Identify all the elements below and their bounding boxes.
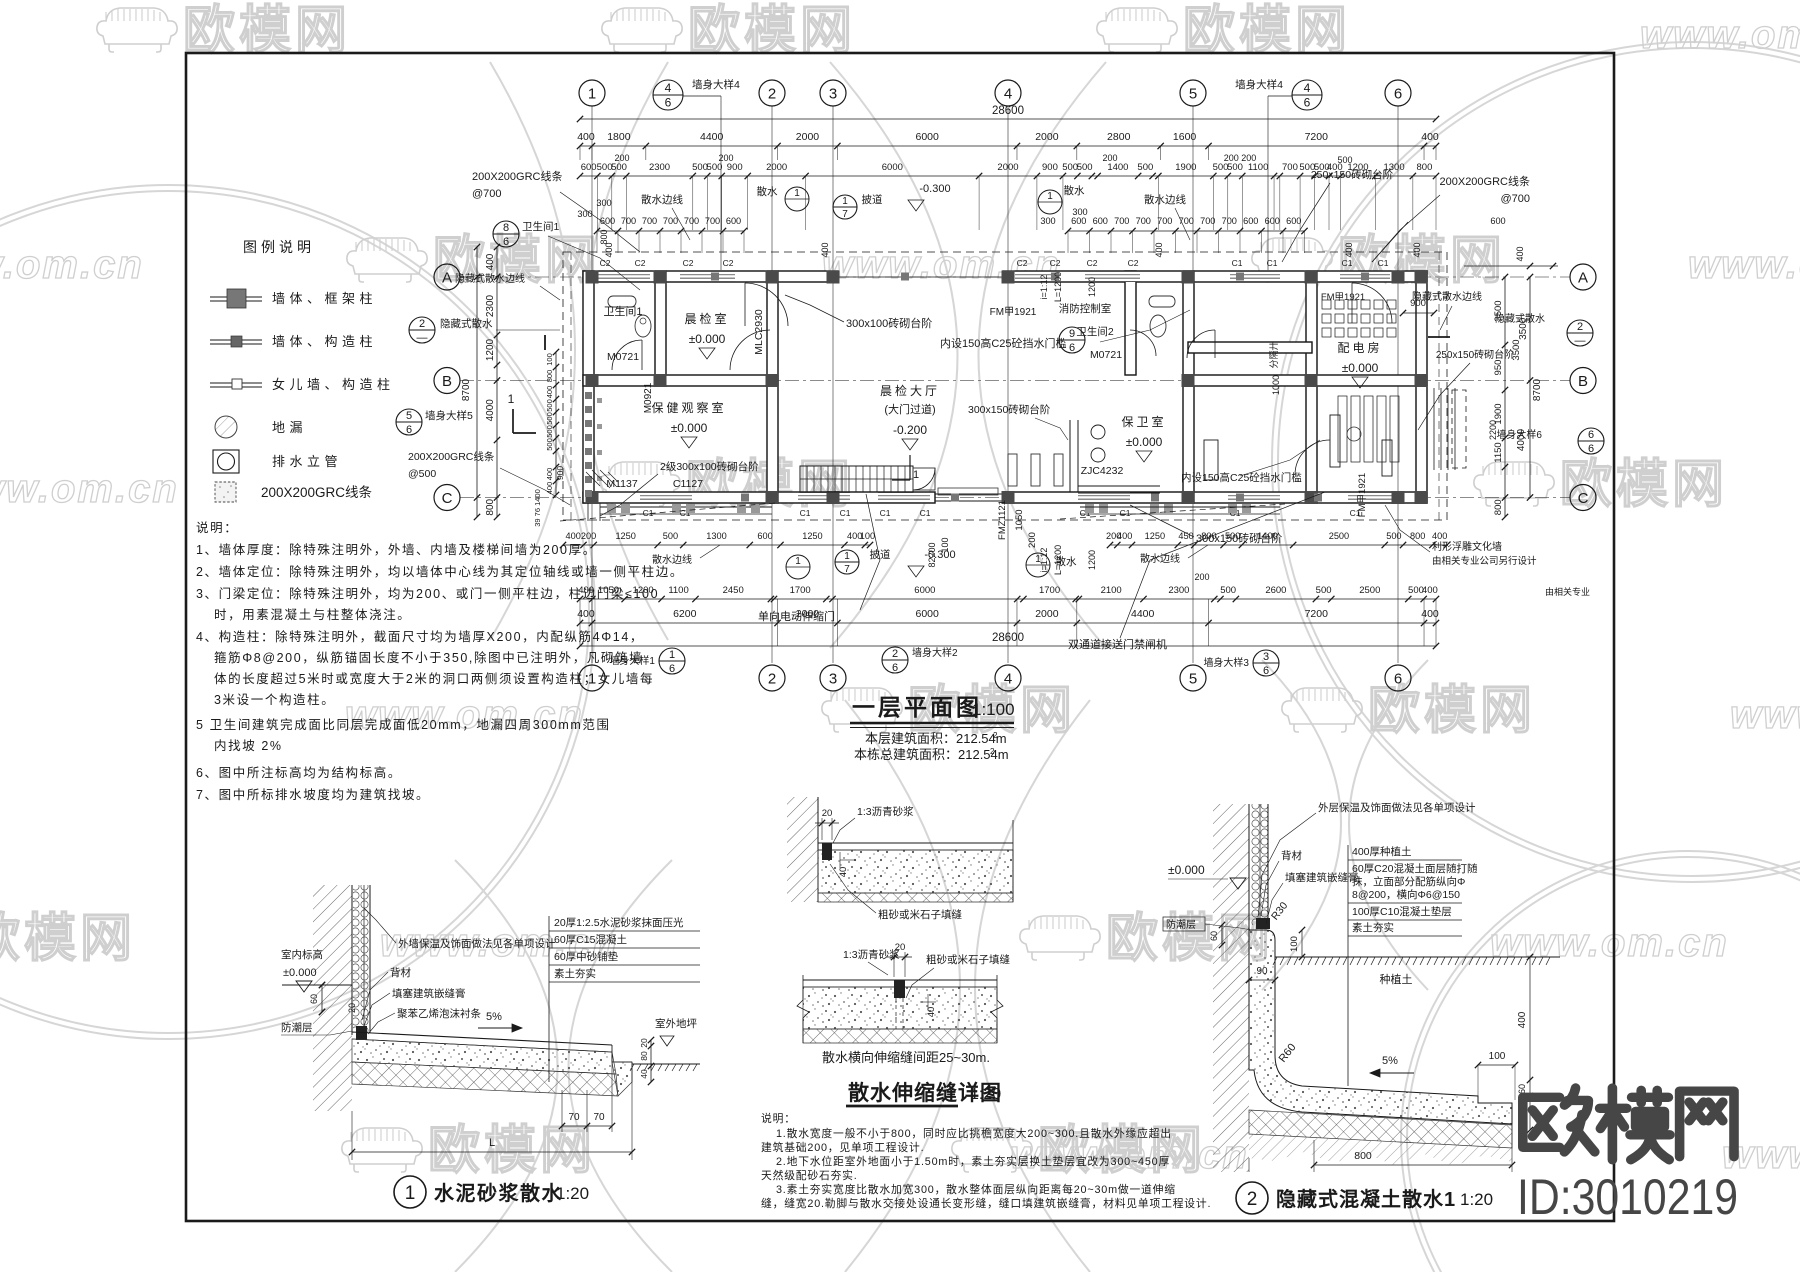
- svg-text:900: 900: [555, 466, 565, 480]
- svg-text:200: 200: [581, 531, 596, 541]
- svg-text:800: 800: [1354, 1150, 1372, 1162]
- windows: [598, 271, 650, 282]
- svg-text:1.散水宽度一般不小于800，同时应比挑檐宽度大200~30: 1.散水宽度一般不小于800，同时应比挑檐宽度大200~300.且散水外缘应超出: [776, 1126, 1172, 1140]
- detail3 concrete L: [1249, 930, 1512, 1124]
- svg-text:1700: 1700: [790, 585, 811, 596]
- svg-text:700: 700: [705, 216, 720, 226]
- svg-text:2100: 2100: [1101, 585, 1122, 596]
- svg-text:400: 400: [1515, 246, 1525, 261]
- svg-text:400: 400: [1422, 585, 1438, 596]
- svg-text:400: 400: [1117, 531, 1132, 541]
- svg-text:2800: 2800: [1107, 131, 1131, 143]
- detail1 earth hatch wall: [313, 885, 352, 1111]
- svg-text:墙身大样1: 墙身大样1: [609, 654, 655, 667]
- svg-text:60厚C20混凝土面层随打随: 60厚C20混凝土面层随打随: [1352, 862, 1478, 875]
- svg-text:www.om.cn: www.om.cn: [1730, 693, 1800, 737]
- svg-text:500: 500: [1227, 162, 1243, 173]
- svg-text:C1: C1: [1342, 258, 1353, 268]
- svg-text:本栋总建筑面积：212.54m: 本栋总建筑面积：212.54m: [854, 747, 1009, 762]
- plan: top grid bubbles: [579, 80, 605, 106]
- svg-text:本层建筑面积：212.54m: 本层建筑面积：212.54m: [865, 731, 1007, 746]
- svg-text:500: 500: [1316, 585, 1332, 596]
- svg-text:2: 2: [768, 670, 776, 687]
- svg-text:欧模网: 欧模网: [428, 1122, 596, 1180]
- svg-text:C2: C2: [723, 258, 734, 268]
- svg-text:隐藏式散水边线: 隐藏式散水边线: [455, 272, 525, 285]
- svg-text:1700: 1700: [1039, 585, 1060, 596]
- detail1 sealant: [356, 1026, 367, 1040]
- svg-text:C: C: [1578, 490, 1589, 507]
- building walls: [583, 271, 838, 282]
- svg-text:1400: 1400: [1107, 162, 1128, 173]
- svg-text:4: 4: [1004, 85, 1012, 102]
- svg-text:600: 600: [600, 216, 615, 226]
- svg-text:A: A: [442, 269, 452, 286]
- svg-text:(大门过道): (大门过道): [884, 402, 935, 416]
- svg-text:@500: @500: [408, 468, 436, 480]
- detail1 title: [394, 1176, 426, 1208]
- svg-text:散水边线: 散水边线: [641, 193, 683, 206]
- svg-text:8700: 8700: [1532, 378, 1543, 401]
- svg-text:±0.000: ±0.000: [1342, 361, 1379, 375]
- svg-text:70: 70: [568, 1112, 580, 1123]
- plan: letter axis lines: [460, 276, 1570, 278]
- svg-text:200: 200: [1102, 153, 1117, 163]
- svg-text:1100: 1100: [668, 585, 688, 596]
- svg-text:散水: 散水: [1064, 184, 1086, 197]
- svg-text:6200: 6200: [673, 608, 697, 620]
- svg-text:C1: C1: [1120, 508, 1131, 518]
- svg-text:20: 20: [639, 1038, 649, 1048]
- svg-text:2: 2: [1247, 1189, 1258, 1210]
- svg-text:5 卫生间建筑完成面比同层完成面低20mm，地漏四周300: 5 卫生间建筑完成面比同层完成面低20mm，地漏四周300mm范围: [196, 717, 611, 732]
- svg-text:C1: C1: [920, 508, 931, 518]
- svg-text:900: 900: [1410, 298, 1426, 309]
- detail1 interior floor line: [282, 984, 352, 986]
- svg-text:500: 500: [545, 399, 554, 412]
- svg-text:800: 800: [485, 498, 496, 515]
- svg-text:www.om.cn: www.om.cn: [1688, 243, 1800, 287]
- svg-text:散水边线: 散水边线: [652, 553, 692, 566]
- svg-text:7、图中所标排水坡度均为建筑找坡。: 7、图中所标排水坡度均为建筑找坡。: [196, 787, 430, 802]
- svg-text:2000: 2000: [796, 608, 820, 620]
- svg-text:4、构造柱：除特殊注明外，截面尺寸均为墙厚X200，内配纵筋: 4、构造柱：除特殊注明外，截面尺寸均为墙厚X200，内配纵筋4Φ14，: [196, 629, 644, 644]
- svg-text:隐藏式混凝土散水1: 隐藏式混凝土散水1: [1276, 1187, 1456, 1211]
- svg-text:说明：: 说明：: [196, 520, 238, 535]
- svg-text:隐藏式散水: 隐藏式散水: [440, 317, 493, 330]
- svg-text:200X200GRC线条: 200X200GRC线条: [1440, 174, 1531, 188]
- svg-text:40: 40: [838, 867, 849, 878]
- svg-text:700: 700: [1282, 162, 1298, 173]
- svg-text:250x150砖砌台阶: 250x150砖砌台阶: [1436, 348, 1514, 361]
- svg-text:C1127: C1127: [673, 478, 703, 490]
- svg-text:2450: 2450: [723, 585, 744, 596]
- svg-text:28600: 28600: [992, 632, 1024, 644]
- svg-text:6、图中所注标高均为结构标高。: 6、图中所注标高均为结构标高。: [196, 765, 402, 780]
- svg-text:1200: 1200: [485, 338, 496, 361]
- svg-text:600: 600: [1243, 216, 1258, 226]
- small cabinet: [1204, 440, 1218, 480]
- svg-text:1050: 1050: [598, 585, 619, 596]
- detail3 earth hatch: [1213, 804, 1249, 1172]
- detail3 ground line: [1275, 956, 1560, 958]
- svg-text:200X200GRC线条: 200X200GRC线条: [472, 169, 563, 183]
- svg-text:6: 6: [1394, 85, 1402, 102]
- svg-text:C1: C1: [1378, 258, 1389, 268]
- detail1 right ground: [632, 1063, 700, 1065]
- detail1 vertical dims right: [650, 1040, 652, 1082]
- svg-text:400: 400: [1154, 242, 1164, 257]
- svg-text:一层平面图: 一层平面图: [852, 694, 982, 720]
- svg-text:防潮层: 防潮层: [1166, 918, 1196, 931]
- svg-text:200: 200: [614, 153, 629, 163]
- svg-text:www.om.cn: www.om.cn: [1490, 921, 1729, 965]
- svg-text:200X200GRC线条: 200X200GRC线条: [261, 484, 373, 500]
- svg-text:400: 400: [545, 468, 554, 481]
- svg-text:1: 1: [669, 649, 675, 661]
- svg-text:700: 700: [1136, 216, 1151, 226]
- svg-text:利形浮雕文化墙: 利形浮雕文化墙: [1432, 540, 1502, 553]
- svg-text:600: 600: [1093, 216, 1108, 226]
- turnstile gate: [800, 466, 913, 492]
- svg-text:1:3沥青砂浆: 1:3沥青砂浆: [843, 948, 900, 961]
- svg-text:2: 2: [993, 731, 998, 740]
- svg-text:2000: 2000: [766, 162, 787, 173]
- svg-text:粗砂或米石子填缝: 粗砂或米石子填缝: [926, 953, 1010, 966]
- svg-text:500: 500: [1220, 585, 1236, 596]
- svg-text:A: A: [1578, 269, 1588, 286]
- svg-text:800: 800: [1201, 531, 1216, 541]
- svg-text:背材: 背材: [1281, 849, 1303, 862]
- GRC corner hatch: [586, 470, 618, 488]
- svg-text:5: 5: [1189, 670, 1197, 687]
- svg-text:2000: 2000: [796, 131, 820, 143]
- svg-text:1: 1: [844, 551, 850, 562]
- svg-text:墙身大样3: 墙身大样3: [1203, 656, 1249, 669]
- svg-text:墙身大样5: 墙身大样5: [425, 409, 473, 422]
- svg-text:±0.000: ±0.000: [283, 967, 317, 979]
- svg-text:4400: 4400: [1131, 608, 1155, 620]
- svg-text:6: 6: [665, 96, 672, 110]
- detail2 top sub: wall hatch: [787, 797, 818, 902]
- svg-text:1250: 1250: [802, 531, 822, 541]
- svg-text:散水: 散水: [1056, 555, 1078, 568]
- svg-text:400: 400: [820, 242, 830, 257]
- svg-text:1200: 1200: [1087, 550, 1097, 570]
- watermark logos: [97, 8, 177, 52]
- svg-text:1: 1: [1047, 191, 1053, 202]
- svg-text:1000: 1000: [1271, 375, 1281, 395]
- svg-text:400: 400: [1344, 242, 1354, 257]
- svg-text:1800: 1800: [607, 131, 631, 143]
- svg-text:聚苯乙烯泡沫衬条: 聚苯乙烯泡沫衬条: [397, 1007, 481, 1020]
- svg-text:ID:3010219: ID:3010219: [1517, 1169, 1738, 1225]
- svg-text:6: 6: [406, 424, 412, 436]
- svg-text:卫生间1: 卫生间1: [522, 220, 559, 233]
- svg-text:600: 600: [1071, 216, 1086, 226]
- svg-text:400: 400: [1517, 1011, 1528, 1028]
- svg-text:60: 60: [1209, 931, 1219, 941]
- right vertical dims: [1504, 277, 1506, 517]
- svg-text:9: 9: [1069, 328, 1075, 340]
- svg-text:700: 700: [684, 216, 699, 226]
- svg-text:6: 6: [892, 662, 898, 674]
- svg-text:3: 3: [829, 85, 837, 102]
- svg-text:5: 5: [406, 410, 412, 422]
- svg-text:±0.000: ±0.000: [689, 332, 726, 346]
- svg-text:ZJC4232: ZJC4232: [1081, 465, 1124, 477]
- svg-text:2500: 2500: [1329, 531, 1349, 541]
- svg-text:种植土: 种植土: [1380, 972, 1413, 986]
- svg-text:欧模网: 欧模网: [0, 910, 136, 968]
- svg-text:60: 60: [1517, 1084, 1527, 1094]
- big site logo: [1523, 1088, 1734, 1160]
- svg-text:1: 1: [913, 469, 919, 481]
- svg-text:600: 600: [726, 216, 741, 226]
- svg-text:由相关专业公司另行设计: 由相关专业公司另行设计: [1432, 555, 1537, 567]
- svg-text:2300: 2300: [1168, 585, 1189, 596]
- louver array 2: [1338, 396, 1347, 462]
- svg-text:内设150高C25砼挡水门槛: 内设150高C25砼挡水门槛: [1181, 471, 1302, 484]
- svg-text:C2: C2: [683, 258, 694, 268]
- svg-text:—: —: [417, 332, 428, 344]
- svg-text:400: 400: [578, 585, 594, 596]
- svg-text:7: 7: [844, 564, 850, 575]
- svg-text:素土夯实: 素土夯实: [554, 967, 596, 980]
- svg-text:披道: 披道: [862, 193, 883, 206]
- svg-text:100: 100: [545, 353, 554, 366]
- svg-text:500: 500: [663, 531, 678, 541]
- svg-text:400: 400: [1421, 131, 1439, 143]
- svg-text:1200: 1200: [633, 585, 654, 596]
- svg-text:B: B: [1578, 373, 1588, 390]
- svg-text:800: 800: [545, 370, 554, 383]
- detail1 right spec列: [548, 916, 550, 1082]
- svg-text:欧模网: 欧模网: [688, 2, 856, 60]
- svg-text:抹，立面部分配筋纵向Φ: 抹，立面部分配筋纵向Φ: [1352, 875, 1465, 888]
- svg-text:C1: C1: [840, 508, 851, 518]
- svg-text:500: 500: [545, 425, 554, 438]
- svg-text:3: 3: [829, 670, 837, 687]
- svg-text:外墙保温及饰面做法见各单项设计: 外墙保温及饰面做法见各单项设计: [398, 937, 556, 950]
- svg-text:100: 100: [860, 531, 875, 541]
- svg-text:200: 200: [1027, 532, 1038, 548]
- svg-text:1250: 1250: [615, 531, 635, 541]
- svg-text:保健观察室: 保健观察室: [651, 400, 726, 415]
- svg-text:L: L: [489, 1137, 495, 1149]
- svg-text:晨检室: 晨检室: [684, 311, 729, 326]
- svg-text:图例说明: 图例说明: [243, 239, 315, 255]
- legend GRC strip: [215, 482, 236, 502]
- svg-text:1150: 1150: [1493, 442, 1504, 462]
- svg-text:—: —: [1575, 335, 1586, 347]
- svg-text:500: 500: [1337, 155, 1352, 165]
- svg-text:300: 300: [596, 198, 611, 208]
- guard room enclosure: [1069, 420, 1071, 492]
- svg-text:C2: C2: [1017, 258, 1028, 268]
- svg-text:3.素土夯实宽度比散水加宽300，散水整体面层纵向距离每20: 3.素土夯实宽度比散水加宽300，散水整体面层纵向距离每20~30m做一道伸缩: [776, 1182, 1176, 1196]
- svg-text:1400: 1400: [1257, 531, 1277, 541]
- svg-text:6: 6: [1588, 429, 1594, 441]
- svg-text:C1: C1: [1232, 258, 1243, 268]
- svg-text:M0921: M0921: [643, 382, 654, 413]
- svg-text:700: 700: [663, 216, 678, 226]
- svg-text:3米设一个构造柱。: 3米设一个构造柱。: [214, 692, 335, 707]
- svg-text:室内标高: 室内标高: [281, 948, 323, 961]
- svg-text:700: 700: [1200, 216, 1215, 226]
- svg-text:墙身大样4: 墙身大样4: [1235, 78, 1283, 91]
- svg-text:6: 6: [669, 663, 675, 675]
- svg-text:2.地下水位距室外地面小于1.50m时，素土夯实层换土垫层宜: 2.地下水位距室外地面小于1.50m时，素土夯实层换土垫层宜改为300~450厚: [776, 1154, 1170, 1168]
- svg-text:60: 60: [309, 994, 319, 1004]
- svg-text:6000: 6000: [916, 608, 940, 620]
- svg-text:2: 2: [768, 85, 776, 102]
- svg-text:1100: 1100: [1248, 162, 1268, 173]
- svg-text:500: 500: [1225, 531, 1240, 541]
- svg-text:消防控制室: 消防控制室: [1059, 302, 1112, 315]
- svg-text:1:3沥青砂浆: 1:3沥青砂浆: [857, 805, 914, 818]
- svg-text:散水边线: 散水边线: [1144, 193, 1186, 206]
- svg-text:300x150砖砌台阶: 300x150砖砌台阶: [968, 403, 1051, 416]
- svg-text:300: 300: [1040, 216, 1055, 226]
- svg-text:90: 90: [1256, 966, 1268, 977]
- svg-text:2: 2: [892, 648, 898, 660]
- svg-text:填塞建筑嵌缝膏: 填塞建筑嵌缝膏: [392, 987, 466, 1000]
- svg-text:800: 800: [1493, 499, 1504, 515]
- svg-text:素土夯实: 素土夯实: [1352, 921, 1394, 934]
- svg-text:1: 1: [508, 392, 515, 406]
- svg-text:说明：: 说明：: [761, 1111, 796, 1125]
- svg-text:卫生间1: 卫生间1: [603, 304, 642, 318]
- svg-text:i=1:12: i=1:12: [1039, 275, 1049, 300]
- svg-text:1050: 1050: [1014, 509, 1025, 530]
- legend wall constructional column: [210, 339, 262, 341]
- exterior steps right porch: [1426, 388, 1428, 470]
- svg-text:400: 400: [545, 482, 554, 495]
- detail1 insulation layer: [353, 885, 370, 1033]
- svg-text:2500: 2500: [1359, 585, 1380, 596]
- plan: 700-series tick clusters: [597, 230, 744, 232]
- svg-text:C1: C1: [1267, 258, 1278, 268]
- svg-text:1250: 1250: [1145, 531, 1165, 541]
- svg-text:www.om.cn: www.om.cn: [1640, 13, 1800, 57]
- svg-text:6000: 6000: [882, 162, 903, 173]
- svg-text:950: 950: [1493, 360, 1504, 376]
- svg-text:200X200GRC线条: 200X200GRC线条: [408, 450, 495, 463]
- plan: bottom dimension rows: [563, 544, 870, 546]
- svg-text:6: 6: [1304, 96, 1311, 110]
- svg-text:700: 700: [1114, 216, 1129, 226]
- svg-text:800: 800: [1417, 162, 1433, 173]
- detail2 top sub: slab: [818, 842, 1013, 844]
- svg-text:欧模网: 欧模网: [183, 2, 351, 60]
- svg-text:700: 700: [1157, 216, 1172, 226]
- svg-text:400: 400: [1432, 531, 1447, 541]
- detail1 L dim: [352, 1151, 632, 1153]
- svg-text:B: B: [442, 373, 452, 390]
- left vertical dims: [476, 247, 478, 517]
- svg-text:8700: 8700: [461, 378, 472, 401]
- svg-text:FM甲1921: FM甲1921: [1321, 292, 1365, 303]
- svg-text:MLC2930: MLC2930: [753, 309, 765, 355]
- svg-text:1:100: 1:100: [972, 700, 1015, 719]
- svg-text:1: 1: [795, 556, 801, 567]
- svg-text:散水边线: 散水边线: [1140, 552, 1180, 565]
- detail3 spec column: [1347, 845, 1349, 1086]
- detail3 title: [1236, 1182, 1268, 1214]
- svg-text:4: 4: [1004, 670, 1012, 687]
- detail3 insulation: [1251, 804, 1268, 925]
- svg-text:3500: 3500: [1518, 317, 1529, 340]
- detail1 slab: [352, 1032, 612, 1045]
- svg-text:缝，缝宽20.勒脚与散水交接处设通长变形缝，缝口填建筑嵌缝膏: 缝，缝宽20.勒脚与散水交接处设通长变形缝，缝口填建筑嵌缝膏，材料见单项工程设计…: [761, 1196, 1211, 1210]
- svg-text:1、墙体厚度：除特殊注明外，外墙、内墙及楼梯间墙为200厚。: 1、墙体厚度：除特殊注明外，外墙、内墙及楼梯间墙为200厚。: [196, 542, 597, 557]
- svg-text:2: 2: [419, 318, 425, 330]
- svg-text:墙身大样4: 墙身大样4: [692, 78, 740, 91]
- svg-text:80: 80: [639, 1051, 649, 1061]
- svg-text:保卫室: 保卫室: [1121, 414, 1166, 429]
- svg-text:400: 400: [1412, 242, 1422, 257]
- svg-text:1: 1: [405, 1183, 416, 1204]
- svg-text:5: 5: [1189, 85, 1197, 102]
- svg-text:1: 1: [1035, 554, 1041, 565]
- svg-text:400: 400: [485, 253, 496, 270]
- svg-text:C2: C2: [600, 258, 611, 268]
- svg-text:FMZ1121: FMZ1121: [997, 500, 1008, 540]
- svg-text:C2: C2: [1128, 258, 1139, 268]
- svg-text:双通道接送门禁闸机: 双通道接送门禁闸机: [1068, 637, 1167, 651]
- svg-text:±0.000: ±0.000: [1168, 863, 1205, 877]
- door arcs: [612, 340, 642, 370]
- svg-text:-0.300: -0.300: [924, 549, 955, 561]
- svg-text:400: 400: [566, 531, 581, 541]
- svg-text:配电房: 配电房: [1337, 340, 1382, 355]
- svg-text:8@200，横向Φ6@150: 8@200，横向Φ6@150: [1352, 888, 1460, 901]
- svg-text:900: 900: [727, 162, 743, 173]
- svg-text:7: 7: [842, 209, 848, 220]
- svg-text:800: 800: [1410, 531, 1425, 541]
- svg-text:6: 6: [1069, 342, 1075, 354]
- legend floor drain: [215, 416, 237, 438]
- detail2 bottom sub: slab: [803, 979, 997, 981]
- svg-text:女儿墙、构造柱: 女儿墙、构造柱: [272, 377, 395, 392]
- svg-text:700: 700: [621, 216, 636, 226]
- svg-text:20: 20: [822, 808, 833, 819]
- svg-text:600: 600: [1265, 216, 1280, 226]
- legend drain pipe: [213, 450, 239, 473]
- svg-text:墙体、框架柱: 墙体、框架柱: [272, 291, 377, 306]
- svg-text:39 76 1400: 39 76 1400: [533, 489, 542, 527]
- svg-text:500: 500: [707, 162, 723, 173]
- svg-text:2300: 2300: [649, 162, 670, 173]
- svg-text:L=1200: L=1200: [1053, 272, 1063, 302]
- svg-text:800: 800: [599, 229, 609, 244]
- svg-text:2、墙体定位：除特殊注明外，均以墙体中心线为其定位轴线或墙一: 2、墙体定位：除特殊注明外，均以墙体中心线为其定位轴线或墙一侧平柱边。: [196, 564, 684, 579]
- svg-text:400厚种植土: 400厚种植土: [1352, 845, 1412, 858]
- svg-text:M0721: M0721: [607, 351, 639, 363]
- svg-text:C2: C2: [1087, 258, 1098, 268]
- border frame: [186, 53, 1614, 1221]
- plan: sanwater dashed outline: [563, 252, 1447, 520]
- svg-text:@700: @700: [472, 188, 502, 200]
- svg-text:60厚中砂铺垫: 60厚中砂铺垫: [554, 950, 619, 963]
- svg-text:背材: 背材: [390, 966, 411, 979]
- svg-text:地漏: 地漏: [272, 420, 307, 435]
- svg-text:欧模网: 欧模网: [1183, 2, 1351, 60]
- svg-text:散水: 散水: [757, 185, 778, 198]
- svg-text:FM甲1921: FM甲1921: [990, 307, 1037, 318]
- detail3 dims: [1301, 930, 1303, 957]
